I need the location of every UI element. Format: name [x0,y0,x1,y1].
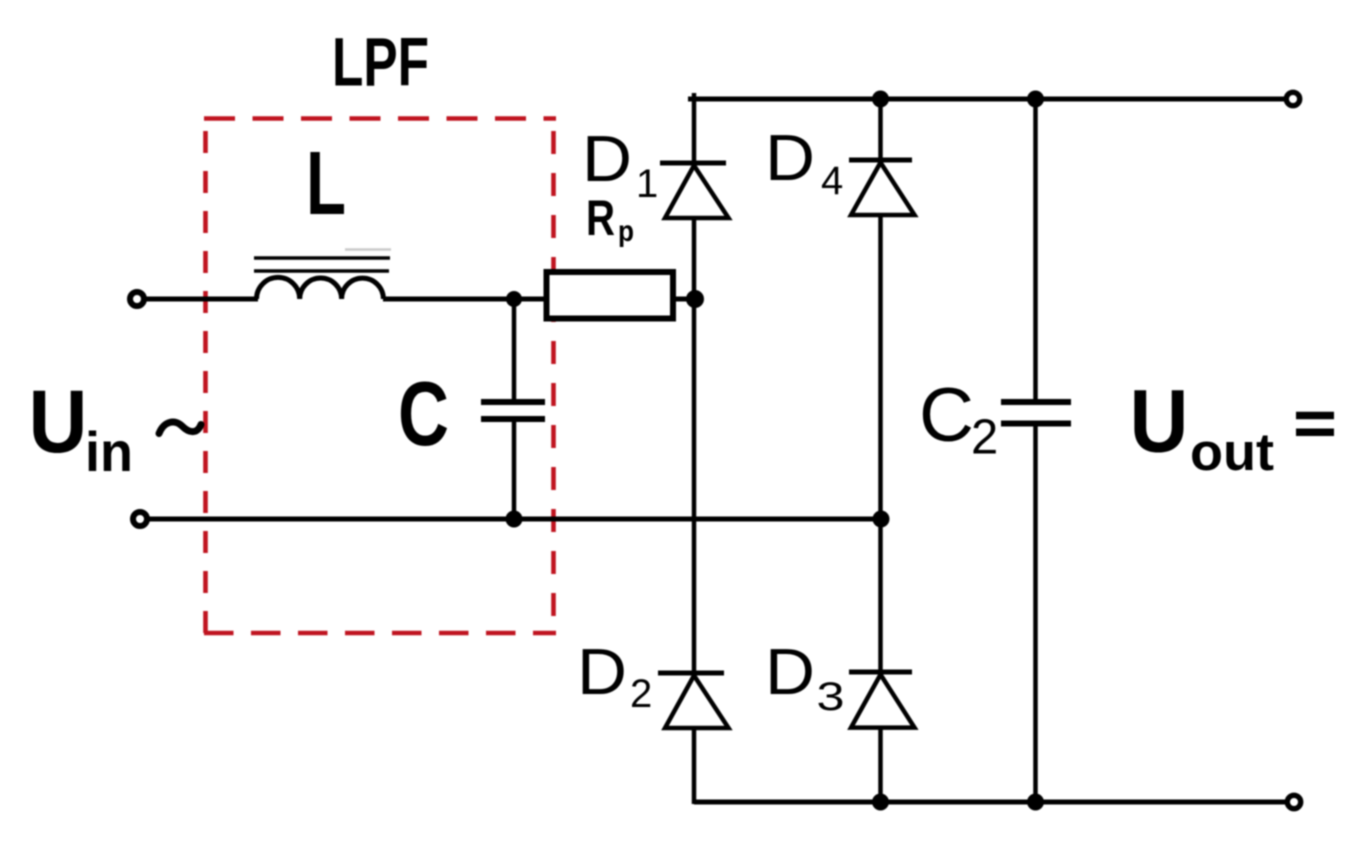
bottom input wire [149,517,881,522]
right column mid segment [878,215,883,672]
svg-text:C: C [398,364,449,465]
node C junction dot (cap C to bottom wire) [506,511,523,528]
svg-text:U: U [1130,371,1189,471]
label = (DC) [1296,416,1334,433]
junction dot top rail / right column [872,91,889,108]
left bridge column upper segment [692,93,697,163]
svg-text:1: 1 [636,162,658,206]
inductor core line 2 [254,269,389,273]
capacitor C2 branch wire top [1033,99,1038,400]
resistor Rp [547,272,674,319]
diode D4 cathode bar [849,158,912,163]
bottom rail [694,800,1294,805]
capacitor C bottom plate [481,416,545,422]
capacitor C2 branch wire bottom [1033,427,1038,803]
svg-text:D: D [765,635,815,708]
capacitor C branch wire top [512,299,517,400]
svg-text:C: C [919,373,974,458]
svg-text:L: L [306,134,346,234]
svg-text:2: 2 [630,672,652,716]
svg-text:D: D [582,122,632,195]
svg-text:p: p [618,215,634,248]
diode D2 triangle [665,676,729,729]
right column lower segment [878,727,883,804]
node D junction dot (bottom wire to right column) [873,511,890,528]
inductor L [257,277,384,299]
input terminal bottom [133,512,147,526]
output terminal bottom [1287,795,1300,808]
capacitor C2 bottom plate [1001,421,1071,427]
node A junction dot [506,291,522,307]
svg-text:4: 4 [821,159,843,203]
right bridge column upper segment [878,99,883,160]
diode D2 cathode bar [658,671,724,676]
output terminal top [1286,92,1299,105]
svg-text:D: D [577,635,627,708]
diode D3 cathode bar [849,670,912,675]
junction dot bottom rail / right column [872,794,889,811]
junction dot bottom rail / C2 [1027,794,1044,811]
left column lower segment [692,728,697,804]
svg-text:D: D [765,121,815,194]
diode D1 cathode bar [660,161,726,166]
diode D1 triangle [665,166,729,219]
junction dot top rail / C2 [1027,91,1044,108]
capacitor C top plate [481,399,545,405]
node B junction dot [686,290,704,308]
wire resistor to node B [673,297,697,302]
svg-text:U: U [29,371,88,471]
wire inductor to node A [383,297,547,302]
input terminal top [130,292,144,306]
diode D3 triangle [851,675,915,728]
svg-text:LPF: LPF [332,24,429,101]
svg-text:3: 3 [817,675,845,719]
wire input to inductor [146,297,258,302]
label ~ (AC) [159,422,201,433]
svg-text:in: in [85,420,133,483]
capacitor C2 top plate [1001,399,1071,405]
svg-text:out: out [1190,423,1274,482]
svg-text:R: R [586,190,615,246]
top rail [688,97,1293,102]
inductor core line 1 [254,256,390,260]
capacitor C branch wire bottom [512,422,517,520]
svg-text:2: 2 [971,411,998,465]
left column mid segment [692,218,697,673]
LPF dashed box [204,117,556,634]
diode D4 triangle [851,163,915,216]
inductor faint core line [345,248,391,251]
